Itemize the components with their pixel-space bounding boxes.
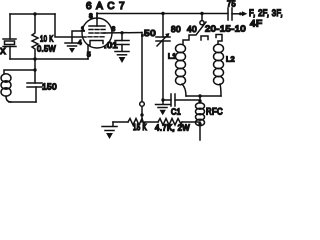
resistor 15K bbox=[128, 119, 145, 126]
svg-text:40: 40 bbox=[187, 24, 197, 34]
value label 75 bbox=[227, 0, 236, 9]
svg-text:5: 5 bbox=[87, 52, 91, 59]
value label 10K bbox=[40, 34, 54, 44]
svg-text:L2: L2 bbox=[226, 55, 235, 64]
node junction top bus switch stub bbox=[200, 12, 203, 15]
svg-text:X: X bbox=[0, 46, 6, 56]
capacitor C1 bbox=[163, 94, 200, 106]
tube label 6AC7 bbox=[86, 1, 125, 12]
wire cathode tank tap bbox=[34, 59, 36, 70]
svg-text:10 K: 10 K bbox=[40, 34, 54, 44]
variable capacitor .50 bbox=[156, 14, 170, 101]
node label X bbox=[0, 46, 6, 56]
ground C1 junction bbox=[156, 100, 171, 115]
wire tank to RFC bbox=[199, 96, 201, 103]
terminal tie point bbox=[140, 102, 145, 107]
node junction tank bottom bbox=[198, 94, 201, 97]
wire tank bottom bbox=[9, 101, 36, 103]
inductor L1 bbox=[176, 44, 187, 96]
wire ground stub 15K bbox=[112, 122, 114, 126]
capacitor .01 screen bypass bbox=[115, 33, 129, 51]
tap label 40 bbox=[187, 24, 197, 34]
value label 150 bbox=[42, 82, 57, 92]
wire grid lead from top bus bbox=[55, 14, 86, 37]
svg-text:C1: C1 bbox=[171, 108, 181, 117]
svg-text:.50: .50 bbox=[141, 28, 156, 38]
node junction top of 10K bbox=[33, 12, 36, 15]
value label C1 bbox=[171, 108, 181, 117]
svg-text:8: 8 bbox=[89, 13, 93, 20]
wire resistor row bbox=[113, 121, 200, 123]
tap label 80 bbox=[171, 24, 181, 34]
terminal switch stub bbox=[200, 14, 204, 25]
wire shell lead bbox=[72, 31, 84, 42]
ground shell bbox=[65, 43, 79, 53]
wire cathode bus bbox=[10, 58, 88, 60]
wire screen lead pin 6 bbox=[104, 32, 142, 35]
value label .50 bbox=[141, 28, 156, 38]
ground screen bypass bbox=[115, 52, 129, 64]
rf choke RFC bbox=[196, 103, 205, 126]
node junction screen bypass bbox=[120, 31, 123, 34]
coil label L1 bbox=[168, 52, 177, 61]
svg-text:6: 6 bbox=[112, 26, 116, 33]
svg-text:4: 4 bbox=[78, 40, 82, 47]
svg-text:4.7K, 2W: 4.7K, 2W bbox=[155, 124, 190, 133]
node junction 10K bottom bbox=[33, 57, 36, 60]
node junction variable cap bbox=[161, 12, 164, 15]
wire tank top to coil bbox=[4, 70, 35, 74]
svg-text:4F: 4F bbox=[250, 19, 263, 30]
node junction RFC top bbox=[198, 99, 201, 102]
svg-text:RFC: RFC bbox=[206, 107, 223, 117]
wire B+ lead bbox=[199, 124, 201, 140]
pin label 1 bbox=[81, 26, 85, 33]
svg-text:L1: L1 bbox=[168, 52, 177, 61]
value label 4.7K 2W bbox=[155, 124, 190, 133]
output label F 2F 3F bbox=[249, 8, 283, 19]
wire L2 tap squiggle bbox=[216, 35, 222, 45]
tube grid rows bbox=[88, 30, 105, 37]
tube plate lead pin 8 bbox=[89, 13, 105, 26]
inductor L cathode coil bbox=[1, 74, 11, 102]
wire tank bottom bus bbox=[186, 95, 221, 97]
output label 4F bbox=[250, 19, 263, 30]
svg-text:.01: .01 bbox=[104, 41, 118, 50]
wire top plate bus bbox=[97, 13, 228, 15]
svg-text:150: 150 bbox=[42, 82, 57, 92]
tap label 20-15-10 bbox=[205, 24, 246, 34]
label RFC bbox=[206, 107, 223, 117]
arrow output bbox=[239, 11, 247, 16]
tube cathode bbox=[88, 41, 103, 60]
resistor 4.7K 2W bbox=[158, 119, 182, 126]
value label 15K bbox=[133, 123, 147, 132]
inductor L2 bbox=[214, 44, 224, 96]
svg-text:0.5W: 0.5W bbox=[37, 44, 56, 54]
wire crystal top lead bbox=[9, 14, 11, 39]
value label .01 bbox=[104, 41, 118, 50]
wire band switch arm bbox=[183, 22, 206, 44]
crystal X bbox=[3, 39, 16, 59]
capacitor output 75 bbox=[228, 8, 240, 20]
node junction C1/ground bbox=[161, 98, 164, 101]
wire top-left (crystal/10K top bus) bbox=[10, 13, 55, 15]
value label 0.5W bbox=[37, 44, 56, 54]
pin label 6 bbox=[112, 26, 116, 33]
node junction RFC bottom bbox=[198, 122, 201, 125]
svg-text:80: 80 bbox=[171, 24, 181, 34]
svg-text:15 K: 15 K bbox=[133, 123, 147, 132]
wire screen divider drop bbox=[141, 33, 143, 123]
ground 15K bbox=[102, 127, 117, 140]
pin label 5 bbox=[87, 52, 91, 59]
coil label L2 bbox=[226, 55, 235, 64]
tube plate stub bbox=[96, 14, 98, 20]
svg-text:20-15-10: 20-15-10 bbox=[205, 24, 246, 34]
resistor R1 10K 0.5W bbox=[32, 14, 38, 59]
pin label 4 bbox=[78, 40, 82, 47]
node junction tank top bbox=[33, 68, 36, 71]
capacitor 150 bbox=[27, 70, 42, 102]
node junction divider bbox=[140, 113, 143, 116]
pin label 8 bbox=[89, 13, 93, 20]
svg-text:F, 2F, 3F,: F, 2F, 3F, bbox=[249, 8, 283, 19]
svg-text:75: 75 bbox=[227, 0, 236, 9]
tube U1 6AC7 envelope bbox=[82, 18, 112, 48]
clip hook bbox=[201, 36, 208, 40]
